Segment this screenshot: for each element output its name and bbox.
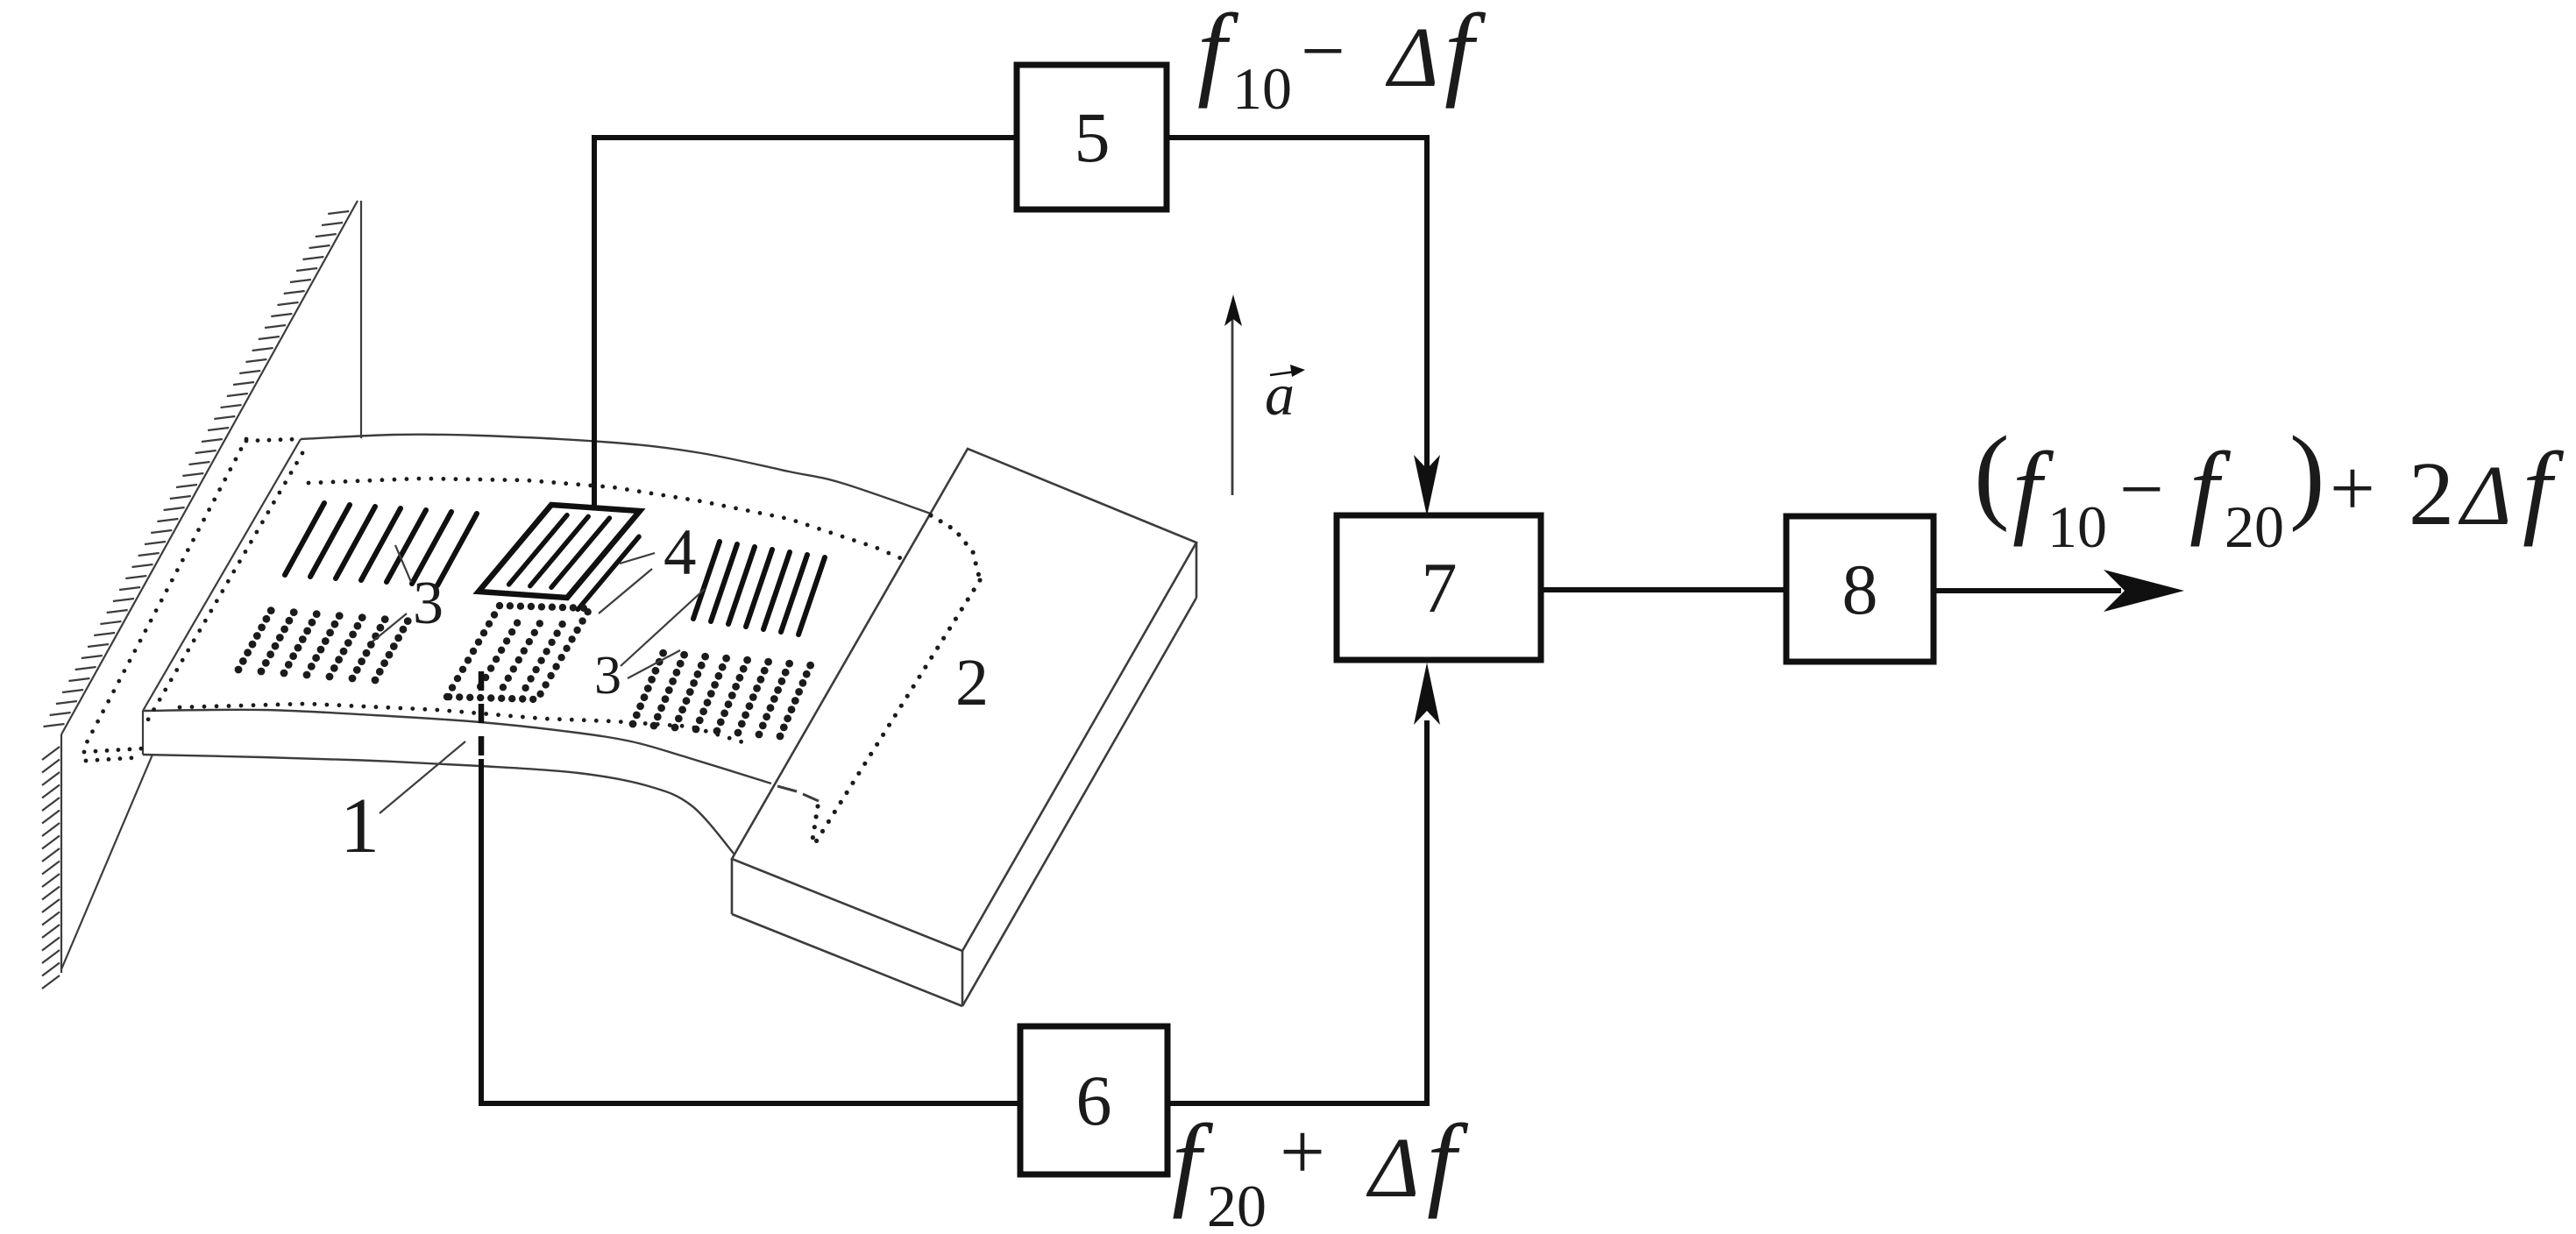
output wire with arrow [1934, 588, 2121, 593]
svg-text:20: 20 [1207, 1173, 1267, 1234]
wire from beam down to box 6 [481, 759, 1020, 1103]
svg-text:10: 10 [1232, 55, 1292, 122]
svg-text:4: 4 [664, 516, 697, 589]
wire from IDT4 up to box 5 [594, 138, 1017, 507]
svg-text:−: − [1301, 8, 1345, 95]
svg-text:): ) [2289, 415, 2325, 533]
svg-text:6: 6 [1076, 1060, 1112, 1140]
wire box7 to box8 [1541, 587, 1786, 592]
svg-text:10: 10 [2047, 493, 2107, 560]
svg-text:2: 2 [2409, 443, 2454, 544]
wire box6 to mixer (up) [1167, 720, 1427, 1103]
svg-text:Δ: Δ [1385, 11, 1439, 105]
wall (fixed support) outline [61, 201, 358, 734]
svg-text:20: 20 [2225, 493, 2284, 560]
svg-text:3: 3 [594, 646, 621, 706]
svg-text:7: 7 [1422, 548, 1458, 628]
svg-text:(: ( [1974, 415, 2010, 533]
svg-text:+: + [2330, 443, 2375, 533]
svg-text:−: − [2119, 446, 2164, 533]
svg-text:3: 3 [413, 570, 444, 637]
box 8 (counter) [1786, 516, 1934, 662]
wall lower front edge [61, 755, 153, 969]
svg-text:a: a [1265, 361, 1295, 428]
arrow into box 7 bottom [1414, 663, 1440, 725]
wall top edge (post above beam) [360, 201, 362, 438]
dashed lead through beam (node) [479, 671, 485, 762]
svg-text:Δ: Δ [2458, 449, 2512, 543]
IDT 4 transducer (solid) [479, 505, 640, 598]
acceleration vector a [1231, 316, 1234, 495]
IDT 3 left reflector (dotted) [235, 666, 243, 674]
svg-text:1: 1 [340, 783, 380, 869]
beam hidden outline behind mass (dotted) [928, 513, 933, 517]
proof mass 2 (block) [732, 449, 1196, 951]
svg-text:2: 2 [955, 646, 989, 720]
beam hidden rear-bottom edge (dotted) [307, 481, 311, 486]
beam hidden front lower edge (dotted) [178, 706, 182, 710]
svg-text:5: 5 [1075, 97, 1111, 177]
arrow into box 7 top [1414, 455, 1440, 516]
IDT 3 left (solid fingers) [285, 503, 324, 575]
wire box5 to mixer (down) [1167, 138, 1427, 473]
svg-text:8: 8 [1842, 550, 1878, 629]
IDT 3 right reflector (dotted) [629, 720, 637, 728]
svg-text:Δ: Δ [1366, 1121, 1420, 1216]
beam 1 (cantilever) outline [301, 435, 931, 514]
svg-text:+: + [1280, 1107, 1325, 1196]
box 6 (oscillator 2) [1020, 1026, 1167, 1174]
wall hatching [328, 211, 349, 214]
IDT 4 counterpart (dotted) [444, 693, 451, 700]
box 5 (oscillator 1) [1017, 65, 1167, 209]
IDT 3 right (solid fingers) [693, 542, 720, 619]
box 7 (mixer) [1337, 515, 1541, 660]
beam hidden root in wall (dotted) [245, 439, 249, 443]
